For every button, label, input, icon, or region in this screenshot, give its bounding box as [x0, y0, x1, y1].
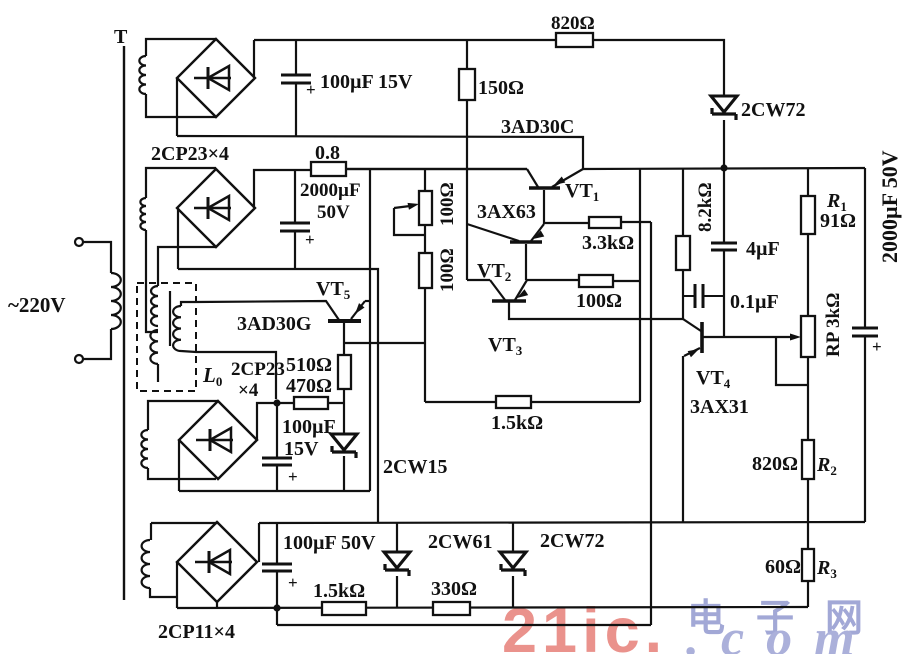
label 100uF: [282, 416, 336, 438]
svg-text:+: +: [288, 467, 298, 486]
wire W3 top to bridge B3: [148, 401, 218, 430]
label 2CP23x4: [151, 143, 229, 165]
svg-text:820Ω: 820Ω: [551, 13, 595, 34]
wire B4 plus riser: [258, 523, 260, 562]
watermark com: [686, 610, 877, 654]
label 3.3kohm: [582, 232, 634, 254]
wire R1 stem: [807, 168, 809, 196]
label R1: [826, 190, 847, 214]
svg-text:50V: 50V: [317, 202, 350, 223]
label 2CP23 x4: [231, 359, 285, 401]
label 2CW72 bottom: [540, 530, 604, 552]
svg-text:2CW72: 2CW72: [540, 530, 604, 552]
resistor 3.3kohm: [589, 217, 621, 228]
wire rail to zener 2CW72: [723, 40, 724, 96]
resistor 0.8 leads: [311, 168, 527, 170]
svg-text:3.3kΩ: 3.3kΩ: [582, 232, 634, 254]
svg-text:2CP23: 2CP23: [231, 359, 285, 380]
resistor 1.5k mid leads: [425, 401, 640, 403]
resistor 510ohm leads: [343, 343, 345, 403]
svg-text:2CP11×4: 2CP11×4: [158, 621, 235, 643]
capacitor 100uF 15V (C1) leads: [295, 40, 297, 136]
zener diode 2CW61: [384, 552, 410, 576]
svg-text:470Ω: 470Ω: [286, 375, 332, 397]
zener diode 2CW72 (top): [711, 96, 737, 120]
wire B1 minus riser: [176, 78, 178, 136]
label VT4: [696, 367, 731, 391]
wire B3 plus riser: [257, 403, 277, 440]
svg-text:RP 3kΩ: RP 3kΩ: [823, 293, 844, 357]
label 100uF 50V: [283, 532, 376, 554]
wire B3 minus riser: [178, 440, 180, 491]
zener diode 2CW72 bottom: [500, 552, 526, 576]
capacitor 100uF 50V: [262, 564, 298, 592]
label 0.1uF: [730, 291, 779, 313]
label 3AD30C: [501, 116, 574, 138]
svg-text:+: +: [872, 337, 882, 356]
bridge rectifier B2 2CP23x4: [177, 169, 255, 247]
svg-text:2CW15: 2CW15: [383, 456, 447, 478]
AC source ~220V label: [8, 293, 66, 317]
label 3AX31: [690, 396, 749, 418]
capacitor 2000uF 50V leads: [294, 170, 296, 269]
svg-text:+: +: [305, 230, 315, 249]
wire primary bottom to AC: [83, 329, 111, 359]
wire VT3 collector to VT4 base: [509, 302, 683, 319]
label 2000uF 50V rotated: [877, 150, 902, 263]
svg-text:1.5kΩ: 1.5kΩ: [313, 580, 365, 602]
capacitor 100uF 15V (C3) leads: [276, 403, 278, 491]
wire VT4 emitter down: [682, 356, 684, 522]
resistor 100ohm mid leads: [527, 280, 640, 281]
potentiometer RP 3kohm: [801, 316, 815, 357]
wire bias rail: [177, 607, 808, 608]
wire sampling vertical: [650, 222, 652, 625]
wire between 100ohm resistors: [424, 225, 426, 253]
wire negative rail section1 / 3AD30C net: [177, 136, 583, 169]
label 8.2kohm rotated: [695, 182, 716, 232]
label VT2: [477, 260, 511, 284]
svg-text:0.1µF: 0.1µF: [730, 291, 779, 313]
svg-text:330Ω: 330Ω: [431, 578, 477, 600]
label 820ohm R2: [752, 453, 798, 475]
label 1.5kohm bottom: [313, 580, 365, 602]
label 60ohm: [765, 556, 801, 578]
label 2CW72 top: [741, 99, 805, 121]
transistor VT4 3AX31: [683, 319, 702, 357]
capacitor 0.1uF: [683, 284, 724, 308]
label 150ohm: [478, 77, 524, 99]
zener diode 2CW15 leads: [343, 403, 345, 491]
svg-text:4µF: 4µF: [746, 238, 780, 260]
AC input terminal bottom: [75, 355, 83, 363]
svg-text:3AD30G: 3AD30G: [237, 313, 312, 335]
label 15V: [284, 438, 319, 460]
resistor 8.2kohm: [676, 236, 690, 270]
wire RP wiper tie: [776, 337, 808, 385]
svg-text:100Ω: 100Ω: [437, 182, 458, 226]
secondary winding W1: [139, 56, 146, 94]
svg-text:2CW72: 2CW72: [741, 99, 805, 121]
wire AC top to primary: [83, 242, 111, 273]
resistor 0.8: [311, 162, 346, 176]
resistor R3 60ohm: [802, 549, 814, 581]
wire negative rail section3: [179, 490, 370, 492]
label R3: [816, 557, 837, 581]
secondary winding W3: [141, 430, 148, 468]
svg-text:+: +: [306, 80, 316, 99]
transistor VT5 3AD30G: [328, 301, 370, 343]
wire 2000uF top: [864, 168, 866, 328]
wire L0 right top lead: [181, 302, 196, 306]
capacitor 4uF: [711, 243, 737, 250]
potentiometer 100ohm (upper): [419, 191, 432, 225]
svg-text:820Ω: 820Ω: [752, 453, 798, 475]
capacitor 100uF 50V leads: [276, 522, 278, 609]
AC input terminal top: [75, 238, 83, 246]
wire R2 to R3: [807, 479, 809, 549]
label 100ohm upper rotated: [437, 182, 458, 226]
wire 100ohm chain down: [424, 288, 426, 402]
resistor R2 820ohm: [802, 440, 814, 479]
label 1.5kohm mid: [491, 412, 543, 434]
primary winding: [111, 273, 121, 329]
wire W1 top to bridge B1 AC+: [146, 39, 216, 56]
resistor 1.5kohm bottom: [322, 602, 366, 615]
bridge rectifier B4 2CP11x4: [177, 522, 257, 602]
label 3AD30G: [237, 313, 312, 335]
label RP 3kohm rotated: [823, 293, 844, 357]
resistor 330ohm: [433, 602, 470, 615]
secondary winding W4: [142, 540, 150, 588]
wire VT1 collector: [543, 190, 545, 224]
node dot B3 output: [273, 399, 280, 406]
svg-text:T: T: [114, 26, 128, 48]
svg-text:2CP23×4: 2CP23×4: [151, 143, 229, 165]
wire VT3 base: [467, 279, 490, 281]
capacitor 2000uF 50V output: [852, 328, 882, 356]
resistor 150ohm: [459, 69, 475, 100]
label 50V: [317, 202, 350, 223]
wire bottom positive rail: [151, 522, 865, 523]
wire output rail left: [346, 168, 527, 170]
wire cap to lowest rail: [276, 608, 278, 625]
wire raw supply feeder: [369, 169, 371, 491]
wire L0 left coil top to B2 AC: [158, 247, 216, 286]
wire R3 to bottom rail: [807, 581, 809, 607]
wire B4 bottom stub: [216, 602, 218, 608]
wire top positive rail: [254, 39, 723, 41]
bridge rectifier B3 2CP23x4: [179, 401, 257, 479]
L0 core line: [169, 291, 171, 346]
pot wiper arrow: [394, 201, 425, 235]
svg-text:510Ω: 510Ω: [286, 354, 332, 376]
svg-text:.com: .com: [686, 610, 877, 654]
resistor 510ohm: [338, 355, 351, 389]
capacitor 100uF 15V (C1): [281, 75, 316, 99]
svg-text:2000µF 50V: 2000µF 50V: [877, 150, 902, 263]
zener diode 2CW61 leads: [396, 522, 398, 608]
transistor VT3: [490, 280, 528, 301]
wire B2 plus riser: [254, 170, 311, 208]
L0 left coil: [150, 286, 158, 382]
bridge rectifier B1 2CP23x4: [177, 39, 255, 117]
svg-text:100µF: 100µF: [282, 416, 336, 438]
label 330ohm: [431, 578, 477, 600]
label 4uF: [746, 238, 780, 260]
svg-text:91Ω: 91Ω: [820, 210, 856, 232]
wire negative rail section2: [178, 269, 378, 522]
svg-text:150Ω: 150Ω: [478, 77, 524, 99]
label VT3: [488, 334, 523, 358]
wire W2 bottom to L0 tap: [146, 230, 158, 332]
wire VT2 collector: [525, 244, 527, 280]
label 91ohm: [820, 210, 856, 232]
svg-text:15V: 15V: [284, 438, 319, 460]
svg-text:3AX31: 3AX31: [690, 396, 749, 418]
wire L0 right bottom lead: [181, 351, 276, 399]
label 470ohm: [286, 375, 332, 397]
dashed box L0: [137, 283, 196, 391]
label 2CP11x4: [158, 621, 235, 643]
label 2000uF: [300, 180, 361, 201]
svg-text:60Ω: 60Ω: [765, 556, 801, 578]
svg-text:2CW61: 2CW61: [428, 531, 492, 553]
wire R1 to RP: [807, 234, 809, 316]
resistor R1 91ohm: [801, 196, 815, 234]
wire VT4 collector to RP wiper: [703, 334, 801, 341]
label 3AX63: [477, 201, 536, 223]
label VT1: [565, 180, 599, 204]
resistor 3.3k leads: [544, 222, 651, 223]
capacitor 4uF leads: [723, 168, 725, 337]
wire W4 top: [150, 523, 152, 540]
label 0.8: [315, 142, 340, 164]
svg-text:100Ω: 100Ω: [437, 248, 458, 292]
resistor 150ohm leads: [466, 40, 468, 280]
transistor VT2 3AX63: [467, 224, 544, 242]
label 100ohm lower rotated: [437, 248, 458, 292]
wire VT5 base: [196, 301, 339, 320]
transistor VT1 3AD30C: [527, 169, 583, 188]
wire zener to output rail: [723, 120, 725, 168]
svg-text:2000µF: 2000µF: [300, 180, 361, 201]
svg-text:×4: ×4: [238, 380, 259, 401]
wire B1 plus riser: [253, 40, 255, 78]
zener diode 2CW15: [331, 434, 357, 458]
secondary winding W2: [140, 198, 146, 230]
wire B4 left riser: [176, 562, 178, 608]
node dot cap bottom: [273, 604, 280, 611]
transformer T core: [114, 26, 128, 600]
wire W1 bottom to bridge B1 AC-: [146, 94, 216, 117]
watermark dianziwang: [687, 598, 894, 640]
svg-text:100µF 15V: 100µF 15V: [320, 71, 413, 93]
wire feedback divider vertical: [639, 169, 641, 402]
label 2CW15: [383, 456, 447, 478]
wire VT5 collector: [344, 342, 425, 344]
label VT5: [316, 278, 351, 302]
wire 2000uF bottom: [864, 336, 866, 522]
wire W3 bottom to B3: [148, 468, 216, 479]
capacitor 100uF 15V (C3): [262, 458, 298, 486]
zener diode 2CW72 bottom leads: [512, 522, 514, 608]
svg-text:100Ω: 100Ω: [576, 290, 622, 312]
label 100uF 15V: [320, 71, 413, 93]
resistor 820ohm: [556, 33, 593, 47]
watermark 21ic: [502, 596, 667, 654]
svg-text:0.8: 0.8: [315, 142, 340, 164]
svg-text:1.5kΩ: 1.5kΩ: [491, 412, 543, 434]
svg-text:~220V: ~220V: [8, 293, 66, 317]
label 100ohm mid: [576, 290, 622, 312]
label 820ohm: [551, 13, 595, 34]
wire pot feeder: [424, 169, 426, 191]
wire output rail right: [583, 168, 865, 169]
wire B2 minus riser: [177, 208, 179, 269]
svg-text:3AD30C: 3AD30C: [501, 116, 574, 138]
label R2: [816, 454, 837, 478]
resistor 470ohm: [294, 397, 328, 409]
wire lowest rail: [277, 624, 651, 626]
svg-text:8.2kΩ: 8.2kΩ: [695, 182, 716, 232]
resistor 470ohm leads: [277, 402, 344, 404]
resistor 8.2k leads: [682, 168, 684, 319]
resistor 100ohm mid: [579, 275, 613, 287]
capacitor 2000uF 50V: [280, 223, 315, 249]
svg-text:3AX63: 3AX63: [477, 201, 536, 223]
svg-text:100µF 50V: 100µF 50V: [283, 532, 376, 554]
label L0: [202, 363, 222, 389]
wire W2 top to bridge B2: [146, 168, 216, 198]
wire RP to R2: [807, 357, 809, 440]
resistor 100ohm (lower): [419, 253, 432, 288]
resistor 1.5kohm mid: [496, 396, 531, 408]
node dot output rail: [720, 164, 727, 171]
wire W4 bottom to B4: [150, 588, 177, 597]
label 2CW61: [428, 531, 492, 553]
label 510ohm: [286, 354, 332, 376]
svg-text:+: +: [288, 573, 298, 592]
L0 right coil: [173, 306, 181, 351]
